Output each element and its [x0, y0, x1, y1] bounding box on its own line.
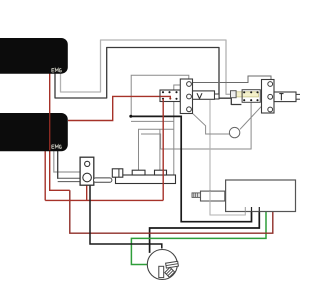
wire: thick black row from junction dot to V bracket drop	[131, 116, 252, 221]
wire: vertical from V top lug area down to bar right end (passes under pot body)	[174, 85, 189, 175]
potentiometer V shaft	[193, 91, 220, 99]
capacitor tone (yellow)	[236, 92, 259, 97]
wire: red overlay from lug dot down through body bottom	[162, 99, 164, 102]
wire: pickup2 white to switch plate	[54, 150, 80, 172]
wire: pickup2 red right side to V pot	[68, 96, 170, 120]
battery snap connector	[192, 191, 225, 201]
wire: pickup2 black down to output cable	[57, 150, 59, 179]
wire: red junction row y200	[45, 199, 163, 201]
potentiometer T bracket	[262, 80, 275, 114]
wire: green battery to jack sleeve	[131, 207, 266, 265]
wire: bus from V top lug to T top lug with jog	[190, 76, 271, 83]
wire: pickup1 red upper segment	[49, 73, 51, 113]
wire: battery clip black to jack	[90, 185, 162, 248]
wire: pickup1 red lower segment to junction	[50, 150, 70, 190]
wire: pickup1 black wire loop to T-pot pcb	[55, 48, 241, 105]
wire: V pot red crossing over bus bar	[162, 170, 164, 185]
wire: feed from junction dot up to V-pot top lug	[131, 75, 189, 116]
wire: pickup2 red down to junction row	[44, 150, 46, 200]
potentiometer T body pcb	[242, 90, 260, 103]
bus bar (quick connect strip)	[112, 169, 175, 184]
wire: V pot red down to junction row	[162, 99, 164, 200]
wire: pickup1 white wire loop to T-pot connector	[61, 40, 231, 94]
wire: row y134 to T-pot pcb bottom via y149	[141, 102, 251, 149]
pickup EMG neck	[0, 38, 68, 74]
wire: bar tab2 vertical	[159, 129, 161, 170]
wire: gray row y129 bridging bar tabs	[139, 129, 174, 170]
wire: V shaft gray wire down to battery tick	[210, 100, 245, 215]
potentiometer T shaft	[274, 92, 301, 102]
wire: T middle lug diagonal to tone cap	[240, 97, 270, 129]
battery 9V	[226, 180, 296, 212]
wire: red overlay inside V body to hook	[160, 96, 170, 98]
junction dot	[129, 115, 132, 118]
wire: red battery positive run	[70, 190, 273, 233]
output jack	[147, 250, 178, 280]
wire: battery clip red to snap connector	[86, 185, 88, 200]
capacitor disc (circle)	[229, 127, 239, 137]
wire: x210 over connector (redraw overlay)	[209, 191, 211, 201]
potentiometer V bracket	[180, 79, 192, 114]
pickup EMG bridge	[0, 113, 68, 151]
connector plug at T pot	[231, 91, 237, 98]
wire: V bracket diagonal to tone cap	[193, 114, 230, 134]
switch plate (jack plate with two holes)	[80, 157, 94, 185]
cable capsule end into bus bar	[94, 178, 112, 182]
wire: black battery to output jack ring	[150, 207, 260, 253]
wire: gray row y122 from junction box to bar right end	[131, 120, 174, 122]
cable: output cable from plate to bar (double line)	[58, 177, 94, 179]
wire: pickup1 red crossing over bridge pickup	[49, 113, 51, 150]
potentiometer V body pcb	[160, 90, 180, 102]
